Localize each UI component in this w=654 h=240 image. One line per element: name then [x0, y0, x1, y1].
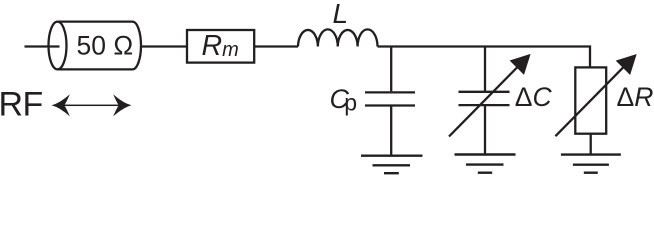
wire input lead — [25, 45, 60, 47]
capacitor Cp top plate — [365, 91, 415, 93]
ground under dR — [561, 155, 621, 173]
RF arrow right head — [113, 94, 131, 116]
inductor L — [298, 29, 378, 46]
svg-text:ΔR: ΔR — [617, 82, 654, 112]
svg-text:50 Ω: 50 Ω — [77, 31, 134, 61]
svg-text:ΔC: ΔC — [515, 82, 553, 112]
variable resistor dR box — [575, 67, 606, 133]
ground under dC — [455, 155, 516, 173]
variable capacitor dC bottom plate — [459, 104, 510, 106]
wire dR to ground — [590, 134, 592, 155]
RF arrow shaft — [60, 105, 123, 107]
variable capacitor dC top plate — [459, 91, 510, 93]
50 ohm source cylinder body — [58, 22, 141, 70]
wire node to dC — [484, 47, 486, 92]
wire cylinder to Rm — [141, 45, 187, 47]
svg-text:RF: RF — [0, 85, 43, 123]
capacitor Cp bottom plate — [365, 104, 415, 106]
wire dC to ground — [484, 106, 486, 155]
wire Rm to L — [254, 45, 298, 47]
wire Cp to ground — [390, 107, 392, 156]
RF arrow left head — [52, 94, 70, 116]
variable resistor dR arrowhead — [616, 54, 637, 75]
ground under Cp — [361, 156, 423, 174]
svg-text:L: L — [333, 0, 349, 29]
resistor Rm box — [187, 30, 254, 63]
wire top bus L to corner and down to dR box — [378, 47, 591, 68]
svg-text:p: p — [344, 89, 357, 115]
variable capacitor dC arrowhead — [510, 54, 531, 75]
50 ohm source cylinder left ellipse — [49, 22, 67, 70]
variable resistor dR arrow shaft — [555, 66, 625, 137]
wire node to Cp — [390, 47, 392, 92]
variable capacitor dC arrow shaft — [449, 66, 519, 137]
